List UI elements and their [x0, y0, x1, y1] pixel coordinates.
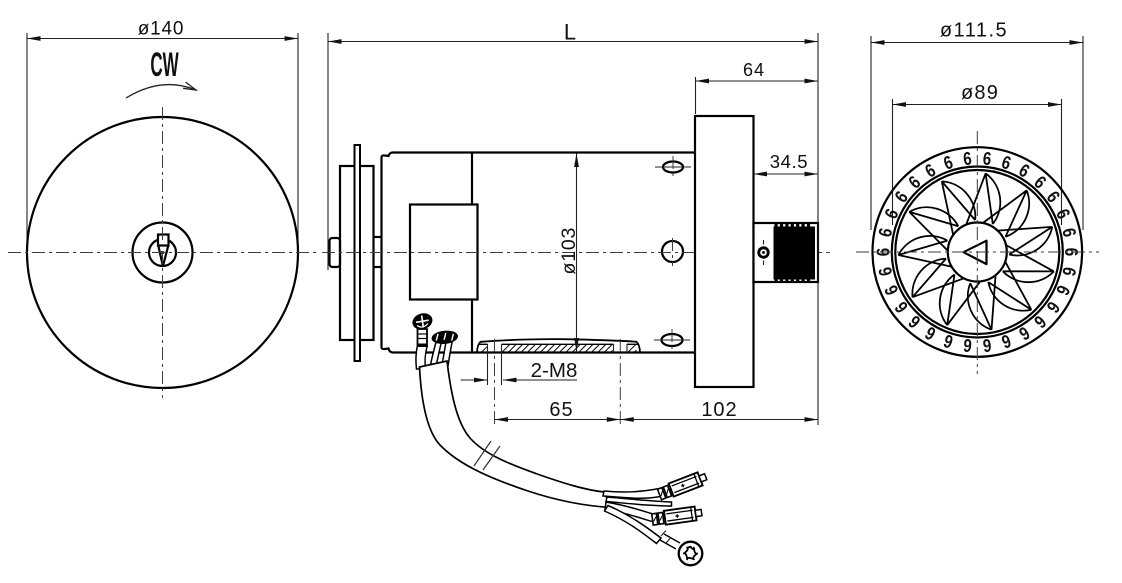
fan hub triangle	[964, 241, 987, 264]
set screw	[757, 240, 769, 265]
motor centerline	[322, 252, 830, 254]
flywheel centerline horizontal	[8, 252, 317, 254]
svg-text:2-M8: 2-M8	[531, 359, 578, 382]
wire stub	[606, 497, 672, 506]
motor body outline	[382, 153, 696, 353]
brush cover rect	[410, 205, 478, 300]
fan outer circle	[873, 147, 1083, 357]
svg-text:65: 65	[549, 399, 573, 421]
dim ø89 extension lines	[893, 99, 1062, 225]
fan ring circle	[892, 167, 1063, 338]
mounting base hatch	[482, 345, 637, 353]
fan housing rect	[695, 116, 754, 387]
svg-text:ø103: ø103	[558, 227, 580, 275]
dim 64 extension	[695, 77, 697, 114]
fan vent slots ring	[873, 148, 1081, 356]
dim 2-M8 arrows	[461, 378, 578, 383]
ring terminal	[660, 531, 702, 566]
cable break mark	[474, 441, 500, 470]
dim ø140 dimension line	[27, 36, 298, 41]
flywheel center dot	[161, 251, 164, 254]
dim ø140 extension lines	[27, 33, 298, 250]
M8 hole right edges	[614, 344, 628, 353]
cable sleeve	[420, 361, 612, 508]
flywheel hub circle	[133, 223, 193, 283]
fan centerline horizontal	[856, 251, 1099, 253]
fan blades	[898, 173, 1054, 329]
vent hole middle	[662, 238, 683, 266]
threaded shaft section	[774, 223, 816, 283]
shaft boss ticks	[374, 237, 382, 267]
fan rim circle	[895, 170, 1059, 334]
svg-text:64: 64	[743, 60, 765, 80]
spade connector 1	[657, 470, 708, 501]
terminal screw 2	[431, 329, 459, 345]
svg-text:L: L	[564, 20, 576, 45]
terminal screw 1	[410, 311, 434, 347]
wire to spade 1	[603, 489, 661, 499]
svg-text:102: 102	[701, 399, 737, 421]
dim 34.5 line	[754, 172, 819, 177]
dim right long extension	[817, 33, 819, 425]
M8 hole left edges	[488, 344, 502, 385]
vent hole top	[655, 156, 691, 178]
dim ø89 line	[893, 102, 1062, 107]
wire from screw1	[416, 346, 427, 369]
shaft bore circle	[149, 239, 176, 266]
dim 65 line	[495, 417, 621, 422]
dim 102 line	[620, 417, 818, 422]
svg-text:ø89: ø89	[961, 82, 999, 104]
dim 64 line	[696, 79, 819, 84]
dim L line	[328, 39, 818, 44]
CW rotation arrow	[126, 82, 196, 98]
svg-text:ø140: ø140	[138, 19, 185, 40]
flywheel disc edge-on	[355, 145, 361, 361]
output shaft block	[754, 223, 819, 282]
fan hub circle	[948, 223, 1007, 282]
motor body step line	[471, 153, 473, 353]
shaft key slot	[158, 235, 169, 246]
wire to ring terminal	[605, 506, 662, 544]
mounting base outline	[477, 339, 640, 352]
motor shaft stub left	[330, 238, 341, 267]
svg-text:ø111.5: ø111.5	[940, 20, 1008, 42]
wire to spade 2	[605, 502, 658, 523]
M8 hole left centerline	[494, 339, 496, 424]
shaft flat V lines	[158, 246, 168, 267]
dim ø111.5 extension lines	[871, 36, 1083, 230]
mounting base inner line	[479, 343, 638, 345]
spade connector 2	[652, 506, 703, 527]
dim L extension left	[327, 33, 329, 270]
flywheel outer circle	[27, 117, 298, 388]
wires from screw2	[430, 341, 452, 368]
flywheel hub side rect	[340, 166, 374, 340]
dim ø103 leader	[574, 154, 579, 353]
M8 hole right centerline	[619, 339, 621, 424]
dim ø111.5 line	[871, 40, 1083, 45]
flywheel centerline vertical	[162, 107, 164, 398]
svg-text:CW: CW	[150, 46, 179, 84]
svg-text:34.5: 34.5	[770, 151, 808, 172]
vent hole bottom	[654, 329, 690, 352]
fan centerline vertical	[976, 131, 978, 374]
